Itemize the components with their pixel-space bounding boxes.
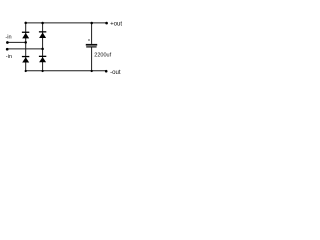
svg-text:+out: +out <box>110 21 122 28</box>
svg-text:-out: -out <box>110 69 121 76</box>
svg-text:2200uf: 2200uf <box>94 53 111 59</box>
svg-text:-in: -in <box>6 54 12 60</box>
svg-text:-in: -in <box>5 35 11 41</box>
